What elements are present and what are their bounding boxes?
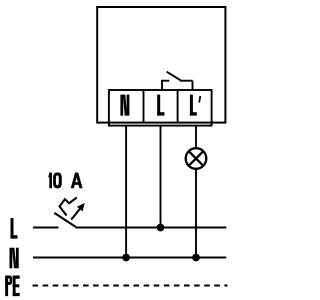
junction dot L wire: [157, 224, 165, 232]
junction dot N wire: [122, 254, 130, 262]
N line: [33, 257, 226, 259]
terminal divider N|L: [143, 90, 145, 123]
breaker blade: [54, 213, 75, 227]
terminal divider L|L': [177, 90, 179, 123]
breaker F1 10A: [54, 197, 80, 226]
label 10 A: [48, 172, 82, 188]
wire from N terminal: [125, 125, 127, 258]
terminal block: [109, 90, 212, 126]
L line: [33, 227, 59, 229]
device box U1: [97, 7, 225, 123]
switch left base: [161, 80, 169, 82]
PE line (dashed): [33, 285, 228, 287]
switch right base: [180, 80, 193, 82]
switch blade: [167, 72, 182, 81]
label N: [10, 248, 19, 269]
breaker release zigzag: [60, 197, 77, 215]
breaker arrow shaft: [71, 209, 80, 220]
switch left stub: [161, 81, 163, 90]
switch S1 inside box: [161, 72, 192, 90]
label PE: [5, 276, 20, 297]
junction dot lamp wire: [192, 254, 200, 262]
wire from L' terminal to lamp: [195, 125, 197, 148]
terminal label L: [157, 95, 164, 116]
switch right stub: [192, 81, 194, 90]
breaker arrow head: [77, 203, 85, 212]
terminal label L': [190, 95, 201, 116]
wire from lamp to N line: [195, 169, 197, 258]
lamp E1: [186, 148, 207, 169]
wire from L terminal: [160, 125, 162, 228]
terminal label N: [120, 95, 129, 116]
label L: [11, 218, 18, 239]
